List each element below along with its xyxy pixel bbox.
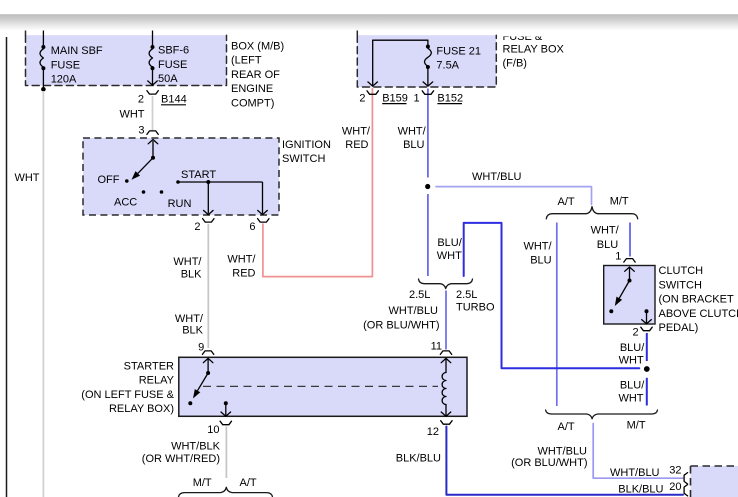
wire BLU/WHT 2.5L TURBO path xyxy=(464,223,640,368)
clutch switch box xyxy=(604,266,655,325)
fuse FUSE 21 7.5A xyxy=(423,45,481,87)
svg-text:(ON LEFT FUSE &: (ON LEFT FUSE & xyxy=(81,389,174,401)
fuse box M/B (left rear of engine compt) xyxy=(26,31,227,86)
connector pin 3 xyxy=(138,124,158,136)
svg-text:PEDAL): PEDAL) xyxy=(659,322,699,334)
top gradient band overlay xyxy=(0,0,738,15)
svg-text:WHT/: WHT/ xyxy=(591,225,620,237)
wire WHT/BLU (2.5L brace to relay pin 11) xyxy=(445,291,447,350)
relay divider (dashed) xyxy=(203,385,438,387)
svg-text:2: 2 xyxy=(194,221,200,233)
svg-text:WHT: WHT xyxy=(437,250,462,262)
svg-text:12: 12 xyxy=(427,426,439,438)
connector ignition pin 2 xyxy=(194,219,214,233)
label CLUTCH SWITCH (ON BRACKET ABOVE CLUTCH PEDAL) xyxy=(659,265,738,334)
label FUSE & RELAY BOX (F/B) xyxy=(498,28,565,69)
svg-text:MAIN SBF: MAIN SBF xyxy=(51,45,103,57)
svg-text:REAR OF: REAR OF xyxy=(231,69,280,81)
svg-text:WHT/BLU: WHT/BLU xyxy=(610,467,660,479)
label 2.5L TURBO xyxy=(456,289,495,313)
svg-text:20: 20 xyxy=(669,481,681,493)
svg-text:WHT: WHT xyxy=(618,392,643,404)
svg-text:BLU/: BLU/ xyxy=(620,342,645,354)
svg-text:(OR BLU/WHT): (OR BLU/WHT) xyxy=(511,457,587,469)
junction BLU/WHT xyxy=(644,366,650,372)
svg-text:WHT/BLU: WHT/BLU xyxy=(472,171,522,183)
label WHT/BLU (M/T branch) xyxy=(591,225,620,252)
label STARTER RELAY (ON LEFT FUSE & RELAY BOX) xyxy=(81,361,174,416)
wire WHT (left, full height) xyxy=(42,91,44,497)
fuse box F/B (fuse & relay box) xyxy=(357,31,496,88)
svg-text:2.5L: 2.5L xyxy=(409,289,430,301)
svg-text:WHT/: WHT/ xyxy=(175,313,204,325)
svg-text:WHT/: WHT/ xyxy=(523,241,552,253)
svg-text:WHT: WHT xyxy=(619,355,644,367)
label WHT/BLK (lower) xyxy=(175,313,204,337)
svg-text:WHT/: WHT/ xyxy=(173,256,202,268)
connector pin 32 xyxy=(684,473,688,484)
svg-text:WHT/BLU: WHT/BLU xyxy=(389,305,439,317)
svg-text:SBF-6: SBF-6 xyxy=(158,45,189,57)
svg-text:RELAY BOX): RELAY BOX) xyxy=(109,403,174,415)
brace 2.5L / 2.5L TURBO merge xyxy=(419,279,473,289)
wire WHT/BLU horizontal branch to A/T-M/T split xyxy=(436,187,592,205)
svg-text:WHT/: WHT/ xyxy=(342,126,371,138)
svg-text:WHT: WHT xyxy=(119,108,144,120)
svg-text:B144: B144 xyxy=(161,94,187,106)
svg-text:9: 9 xyxy=(198,342,204,354)
svg-text:START: START xyxy=(181,169,216,181)
svg-text:BLU/: BLU/ xyxy=(437,237,462,249)
svg-text:A/T: A/T xyxy=(240,477,257,489)
starter relay box xyxy=(179,357,467,416)
brace M/T - A/T split (bottom left) xyxy=(179,487,273,497)
svg-text:(ON BRACKET: (ON BRACKET xyxy=(659,294,734,306)
label IGNITION SWITCH xyxy=(282,139,331,165)
svg-text:WHT: WHT xyxy=(14,172,39,184)
svg-text:ACC: ACC xyxy=(114,197,137,209)
junction WHT/BLU branch xyxy=(425,184,430,189)
label BLU/WHT (upper) xyxy=(619,342,646,367)
svg-text:BLK/BLU: BLK/BLU xyxy=(618,483,663,495)
left frame border line xyxy=(6,37,8,497)
svg-text:IGNITION: IGNITION xyxy=(282,139,331,151)
svg-text:WHT/BLK: WHT/BLK xyxy=(171,441,221,453)
svg-text:ENGINE: ENGINE xyxy=(231,83,273,95)
connector clutch pin 2 xyxy=(632,326,652,338)
svg-text:6: 6 xyxy=(249,221,255,233)
junction below MAIN SBF fuse xyxy=(41,87,46,92)
svg-text:50A: 50A xyxy=(158,73,178,85)
svg-text:A/T: A/T xyxy=(558,421,575,433)
connector relay pin 11 xyxy=(431,341,452,355)
connector relay pin 12 xyxy=(427,421,452,438)
connector clutch pin 1 xyxy=(615,251,635,263)
svg-text:RED: RED xyxy=(345,139,368,151)
svg-text:BLK: BLK xyxy=(182,325,203,337)
clutch switch internals xyxy=(609,267,651,324)
label WHT/BLU (A/T branch) xyxy=(523,241,552,267)
connector pin 20 xyxy=(684,485,688,496)
svg-text:FUSE 21: FUSE 21 xyxy=(436,46,481,58)
svg-text:120A: 120A xyxy=(51,74,77,86)
svg-text:2: 2 xyxy=(138,94,144,106)
F/B internal wire to B159 xyxy=(368,40,428,86)
label WHT/RED xyxy=(342,126,371,152)
wire WHT (B144 to ignition switch) xyxy=(152,96,154,131)
svg-text:BLU: BLU xyxy=(597,239,618,251)
svg-text:32: 32 xyxy=(669,464,681,476)
svg-text:11: 11 xyxy=(431,341,442,353)
svg-text:A/T: A/T xyxy=(558,196,575,208)
ignition internal wire START to pins 2 and 6 xyxy=(178,180,267,215)
label WHT/BLU (OR BLU/WHT) lower xyxy=(511,446,587,470)
connector B159 pin 2 xyxy=(359,91,408,105)
label WHT/BLU (below B152) xyxy=(398,126,427,152)
wire WHT/BLU (B152 down to 2.5L brace) xyxy=(427,89,429,178)
connector relay pin 9 xyxy=(198,342,214,355)
svg-text:7.5A: 7.5A xyxy=(436,60,459,72)
connector relay pin 10 xyxy=(207,421,231,436)
svg-text:SWITCH: SWITCH xyxy=(659,279,702,291)
svg-text:COMPT): COMPT) xyxy=(231,97,274,109)
svg-text:BLU: BLU xyxy=(403,139,424,151)
svg-text:WHT/BLU: WHT/BLU xyxy=(538,446,588,458)
svg-text:ABOVE CLUTCH: ABOVE CLUTCH xyxy=(659,308,738,320)
svg-text:FUSE: FUSE xyxy=(158,59,187,71)
svg-text:RELAY: RELAY xyxy=(139,375,175,387)
label WHT/BLK (upper) xyxy=(173,256,202,281)
connector B152 pin 1 xyxy=(413,91,463,105)
svg-text:2: 2 xyxy=(359,92,365,104)
label BOX (M/B) (LEFT REAR OF ENGINE COMPT) xyxy=(231,41,284,110)
right dashed box (body) xyxy=(691,466,738,497)
svg-text:RUN: RUN xyxy=(168,198,192,210)
connector ignition pin 6 xyxy=(249,219,269,233)
brace A/T - M/T split (upper) xyxy=(546,207,637,219)
svg-text:OFF: OFF xyxy=(98,174,120,186)
svg-text:STARTER: STARTER xyxy=(124,361,174,373)
svg-text:BOX (M/B): BOX (M/B) xyxy=(231,41,284,53)
svg-text:WHT/: WHT/ xyxy=(398,126,427,138)
wire WHT/BLK relay pin 10 down xyxy=(225,427,227,479)
svg-text:10: 10 xyxy=(207,424,219,436)
fuse MAIN SBF 120A xyxy=(40,31,103,90)
connector B144 pin 2 xyxy=(138,91,187,106)
label WHT/BLU (OR BLU/WHT) xyxy=(363,305,439,332)
svg-text:BLK/BLU: BLK/BLU xyxy=(396,453,441,465)
svg-text:3: 3 xyxy=(138,124,144,136)
svg-text:(F/B): (F/B) xyxy=(503,57,527,69)
wire BLU/WHT (clutch pin 2 down) xyxy=(646,333,648,361)
relay coil xyxy=(441,358,451,416)
svg-text:(OR WHT/RED): (OR WHT/RED) xyxy=(142,453,220,465)
svg-text:BLK: BLK xyxy=(181,269,202,281)
svg-text:M/T: M/T xyxy=(627,420,646,432)
svg-text:RED: RED xyxy=(232,268,255,280)
wire WHT/BLU M/T branch (to clutch switch) xyxy=(629,223,631,257)
label BLU/WHT (lower) xyxy=(618,379,645,404)
svg-text:2.5L: 2.5L xyxy=(456,289,477,301)
label WHT/BLK (OR WHT/RED) xyxy=(142,441,221,466)
brace A/T - M/T merge (lower right) xyxy=(546,410,658,419)
svg-text:BLU: BLU xyxy=(530,255,551,267)
svg-text:M/T: M/T xyxy=(193,477,212,489)
relay switch contacts xyxy=(188,358,213,405)
wire WHT/BLK (ignition pin 2 to relay pin 9) xyxy=(207,224,209,348)
svg-text:1: 1 xyxy=(413,92,419,104)
wire WHT/BLU (merge brace to pin 32) xyxy=(593,424,683,479)
svg-text:TURBO: TURBO xyxy=(456,302,495,314)
svg-text:WHT/: WHT/ xyxy=(227,254,256,266)
svg-text:B152: B152 xyxy=(437,92,463,104)
svg-text:FUSE: FUSE xyxy=(51,59,80,71)
svg-text:(LEFT: (LEFT xyxy=(231,55,262,67)
svg-text:RELAY BOX: RELAY BOX xyxy=(503,43,565,55)
wire WHT/BLU A/T branch (long vertical) xyxy=(556,223,558,407)
label BLU/WHT (turbo path) xyxy=(437,237,463,262)
svg-text:(OR BLU/WHT): (OR BLU/WHT) xyxy=(363,320,439,332)
ignition switch wiper and contacts xyxy=(98,140,217,211)
svg-text:BLU/: BLU/ xyxy=(620,379,645,391)
svg-text:SWITCH: SWITCH xyxy=(282,153,325,165)
svg-text:2: 2 xyxy=(632,326,638,338)
wire BLK/BLU (relay pin 12 to pin 20) xyxy=(446,427,683,495)
wire BLU/WHT (junction to lower brace M/T) xyxy=(646,378,648,406)
svg-text:M/T: M/T xyxy=(610,196,629,208)
label WHT/RED (at ignition pin 6) xyxy=(227,254,256,280)
svg-text:1: 1 xyxy=(615,251,621,263)
relay pin 10 contact xyxy=(221,401,231,416)
ignition switch box xyxy=(83,138,279,215)
fuse SBF-6 50A xyxy=(148,31,189,86)
wire WHT/RED (ignition pin 6 to B159) xyxy=(263,89,373,277)
svg-text:CLUTCH: CLUTCH xyxy=(659,265,704,277)
svg-text:B159: B159 xyxy=(382,92,408,104)
